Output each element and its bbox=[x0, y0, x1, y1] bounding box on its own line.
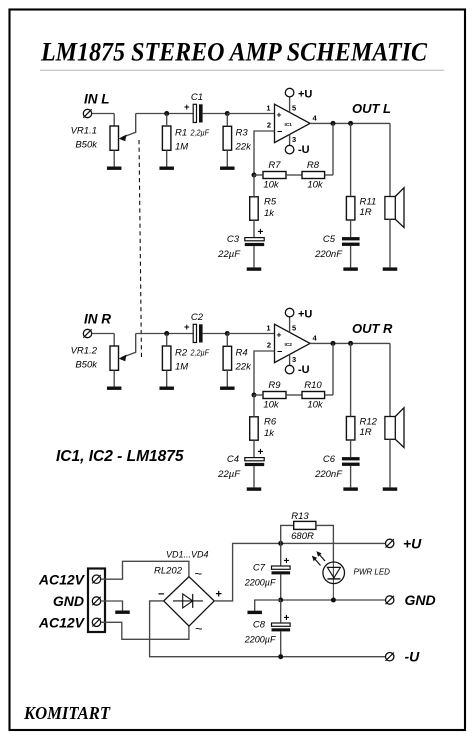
label C6 bbox=[323, 454, 336, 465]
wire midpoint to ground bbox=[255, 600, 281, 611]
label R13 bbox=[291, 511, 309, 522]
label 1M bbox=[175, 142, 188, 153]
output terminal -U bbox=[386, 653, 394, 661]
output terminal +U bbox=[386, 539, 394, 547]
svg-text:+: + bbox=[184, 102, 190, 113]
wire bridge + to +U rail bbox=[214, 543, 281, 601]
label 1M bbox=[175, 362, 188, 373]
pin 1 bbox=[266, 103, 270, 112]
capacitor C3 22uF bbox=[245, 227, 264, 267]
ground bbox=[107, 387, 122, 390]
label VR1.1 bbox=[71, 126, 97, 137]
node bbox=[252, 173, 257, 178]
capacitor C2 2,2&#181;F bbox=[184, 322, 227, 342]
label GND bbox=[405, 592, 436, 608]
svg-text:+: + bbox=[258, 447, 264, 458]
pin 2 bbox=[267, 340, 271, 349]
node bbox=[331, 598, 336, 603]
wire bbox=[136, 333, 194, 335]
label 1k bbox=[264, 428, 275, 439]
pin 1 bbox=[266, 323, 270, 332]
svg-text:+U: +U bbox=[298, 308, 312, 320]
wire bbox=[136, 113, 194, 115]
resistor R9 bbox=[254, 392, 302, 399]
label C1 bbox=[191, 92, 203, 103]
svg-text:KOMITART: KOMITART bbox=[23, 703, 111, 723]
capacitor C8 2200uF bbox=[272, 600, 291, 657]
capacitor C5 220nF bbox=[342, 237, 360, 267]
svg-text:+U: +U bbox=[403, 535, 422, 551]
ground bbox=[220, 167, 235, 170]
svg-text:2,2µF: 2,2µF bbox=[190, 348, 210, 358]
resistor R13 680R bbox=[281, 521, 334, 562]
label C2 bbox=[191, 312, 204, 323]
label 10k bbox=[307, 180, 324, 191]
ground bbox=[247, 267, 262, 270]
speaker right speaker bbox=[385, 408, 404, 488]
svg-text:B50k: B50k bbox=[75, 360, 98, 371]
svg-text:GND: GND bbox=[405, 592, 436, 608]
label C5 bbox=[323, 234, 336, 245]
svg-text:C6: C6 bbox=[323, 454, 336, 465]
label + bbox=[216, 588, 222, 600]
node bbox=[252, 393, 257, 398]
svg-text:10k: 10k bbox=[263, 400, 280, 411]
svg-text:+: + bbox=[284, 613, 290, 624]
bridge rectifier RL202 VD1...VD4 bbox=[164, 577, 215, 626]
wire bbox=[310, 122, 390, 124]
svg-text:C4: C4 bbox=[227, 454, 239, 465]
svg-text:+: + bbox=[277, 329, 282, 339]
svg-text:PWR LED: PWR LED bbox=[354, 568, 391, 577]
label R8 bbox=[307, 160, 320, 171]
svg-text:R13: R13 bbox=[291, 511, 309, 522]
ground bbox=[107, 167, 122, 170]
wire bbox=[92, 114, 115, 127]
label 1k bbox=[264, 208, 275, 219]
svg-text:2200µF: 2200µF bbox=[244, 635, 276, 645]
label RL202 bbox=[154, 566, 183, 577]
potentiometer VR1.2 B50k bbox=[110, 334, 136, 387]
wire GND terminal to ground bbox=[101, 601, 123, 611]
resistor R3 bbox=[223, 114, 232, 167]
svg-text:+U: +U bbox=[298, 88, 312, 100]
svg-text:C7: C7 bbox=[253, 563, 266, 574]
resistor R12 bbox=[346, 343, 355, 457]
label VD1...VD4 bbox=[166, 549, 209, 559]
label AC12V bbox=[38, 614, 86, 630]
resistor R1 bbox=[162, 114, 171, 167]
label PWR LED bbox=[354, 568, 391, 577]
svg-text:IN R: IN R bbox=[84, 311, 111, 326]
negative supply terminal -U bbox=[285, 145, 294, 154]
svg-text:RL202: RL202 bbox=[154, 566, 183, 577]
node bbox=[331, 121, 336, 126]
svg-text:1: 1 bbox=[266, 103, 270, 112]
svg-text:+: + bbox=[216, 588, 222, 600]
svg-text:R9: R9 bbox=[268, 380, 281, 391]
label C4 bbox=[227, 454, 239, 465]
svg-text:+: + bbox=[184, 322, 190, 333]
input terminal IN L bbox=[83, 109, 91, 117]
input terminal IN R bbox=[83, 329, 91, 337]
svg-text:220nF: 220nF bbox=[314, 469, 343, 480]
label R2 bbox=[175, 348, 188, 359]
svg-text:R4: R4 bbox=[236, 348, 248, 359]
node bbox=[278, 654, 283, 659]
label 22uF bbox=[217, 249, 241, 260]
negative supply terminal -U bbox=[285, 365, 294, 374]
label 10k bbox=[263, 180, 280, 191]
label GND bbox=[53, 593, 84, 609]
resistor R7 bbox=[254, 172, 302, 179]
svg-text:-U: -U bbox=[298, 144, 310, 156]
label 1R bbox=[360, 207, 372, 218]
svg-text:VR1.2: VR1.2 bbox=[71, 346, 98, 357]
node bbox=[164, 111, 169, 116]
wire bbox=[227, 113, 274, 115]
pin 4 bbox=[313, 113, 318, 122]
node bbox=[348, 341, 353, 346]
svg-text:OUT L: OUT L bbox=[352, 101, 391, 116]
label VR1.2 bbox=[71, 346, 98, 357]
label ~ bottom bbox=[195, 621, 203, 636]
op-amp IC2 bbox=[275, 324, 311, 362]
svg-text:R2: R2 bbox=[175, 348, 188, 359]
resistor R4 bbox=[223, 334, 232, 387]
svg-text:GND: GND bbox=[53, 593, 84, 609]
svg-text:VR1.1: VR1.1 bbox=[71, 126, 97, 137]
svg-text:3: 3 bbox=[292, 355, 296, 364]
wire +U rail bbox=[281, 542, 386, 544]
node bbox=[164, 331, 169, 336]
node bbox=[278, 598, 283, 603]
wire -U rail bbox=[150, 601, 386, 657]
label 10k bbox=[263, 400, 280, 411]
svg-text:+: + bbox=[277, 109, 282, 119]
wire bbox=[310, 342, 390, 344]
label +U bbox=[298, 88, 312, 100]
wire bbox=[332, 343, 334, 395]
ground bbox=[343, 267, 358, 270]
svg-text:C1: C1 bbox=[191, 92, 203, 103]
capacitor C1 2,2&#181;F bbox=[184, 102, 227, 122]
svg-text:10k: 10k bbox=[263, 180, 280, 191]
svg-text:1k: 1k bbox=[264, 208, 275, 219]
output terminal GND bbox=[386, 596, 394, 604]
title underline bbox=[40, 69, 444, 71]
wire bbox=[254, 351, 275, 395]
svg-text:OUT R: OUT R bbox=[352, 321, 393, 336]
label C3 bbox=[227, 234, 240, 245]
svg-text:IC1, IC2 - LM1875: IC1, IC2 - LM1875 bbox=[56, 448, 184, 465]
label +U bbox=[403, 535, 422, 551]
svg-text:AC12V: AC12V bbox=[38, 614, 86, 630]
svg-text:1M: 1M bbox=[175, 362, 188, 373]
ground bbox=[383, 267, 398, 270]
capacitor C6 220nF bbox=[342, 457, 360, 487]
wire bbox=[92, 334, 115, 347]
svg-text:2200µF: 2200µF bbox=[244, 578, 276, 588]
label 1R bbox=[360, 427, 372, 438]
potentiometer VR1.1 B50k bbox=[110, 114, 136, 167]
svg-text:R6: R6 bbox=[264, 417, 277, 428]
svg-text:680R: 680R bbox=[291, 531, 314, 542]
label 680R bbox=[291, 531, 314, 542]
positive supply terminal +U bbox=[285, 88, 294, 97]
resistor R6 bbox=[250, 395, 259, 458]
svg-text:2: 2 bbox=[267, 340, 271, 349]
node bbox=[348, 121, 353, 126]
svg-text:R7: R7 bbox=[268, 160, 281, 171]
wire AC top bbox=[101, 561, 189, 579]
svg-text:-U: -U bbox=[405, 649, 421, 665]
svg-text:IN L: IN L bbox=[84, 91, 110, 106]
LED PWR LED bbox=[312, 551, 345, 600]
wire bbox=[227, 333, 274, 335]
svg-text:22µF: 22µF bbox=[217, 469, 241, 480]
label R10 bbox=[304, 380, 322, 391]
label OUT L bbox=[352, 101, 391, 116]
label R6 bbox=[264, 417, 277, 428]
svg-text:1: 1 bbox=[266, 323, 270, 332]
svg-text:22k: 22k bbox=[235, 362, 253, 373]
svg-text:1M: 1M bbox=[175, 142, 188, 153]
pin 5 bbox=[290, 317, 297, 333]
svg-text:~: ~ bbox=[195, 621, 203, 636]
ground bbox=[247, 487, 262, 490]
svg-text:IC1: IC1 bbox=[285, 122, 293, 128]
svg-text:C2: C2 bbox=[191, 312, 204, 323]
label 2200uF bbox=[244, 578, 276, 588]
label OUT R bbox=[352, 321, 393, 336]
positive supply terminal +U bbox=[285, 308, 294, 317]
svg-text:AC12V: AC12V bbox=[38, 571, 86, 587]
wire GND rail bbox=[281, 599, 386, 601]
label 22uF bbox=[217, 469, 241, 480]
svg-text:1R: 1R bbox=[360, 207, 372, 218]
svg-text:3: 3 bbox=[292, 135, 296, 144]
svg-text:R1: R1 bbox=[175, 128, 187, 139]
pin 3 bbox=[290, 134, 297, 145]
label 220nF bbox=[314, 249, 343, 260]
ganged pot dashed link bbox=[139, 140, 142, 359]
label R4 bbox=[236, 348, 248, 359]
node bbox=[225, 111, 230, 116]
svg-text:R5: R5 bbox=[264, 197, 277, 208]
ground bbox=[159, 167, 174, 170]
svg-text:VD1...VD4: VD1...VD4 bbox=[166, 549, 209, 559]
label -U bbox=[298, 144, 310, 156]
pin 5 bbox=[290, 97, 297, 113]
svg-text:C3: C3 bbox=[227, 234, 240, 245]
svg-text:~: ~ bbox=[195, 566, 203, 581]
ground bbox=[115, 611, 130, 614]
speaker left speaker bbox=[385, 188, 404, 268]
svg-text:−: − bbox=[277, 346, 282, 356]
label 22k bbox=[235, 362, 253, 373]
label IN R bbox=[84, 311, 111, 326]
svg-text:C5: C5 bbox=[323, 234, 336, 245]
capacitor C4 22uF bbox=[245, 447, 264, 487]
resistor R11 bbox=[346, 123, 355, 237]
svg-text:-U: -U bbox=[298, 364, 310, 376]
svg-text:+: + bbox=[284, 556, 290, 567]
label IN L bbox=[84, 91, 110, 106]
svg-text:2,2µF: 2,2µF bbox=[190, 128, 210, 138]
label R9 bbox=[268, 380, 281, 391]
pin 4 bbox=[313, 333, 318, 342]
wire bbox=[332, 123, 334, 175]
label KOMITART bbox=[23, 703, 111, 723]
op-amp IC1 bbox=[275, 104, 311, 142]
svg-text:10k: 10k bbox=[307, 400, 324, 411]
resistor R2 bbox=[162, 334, 171, 387]
label B50k bbox=[75, 360, 98, 371]
label R3 bbox=[236, 128, 249, 139]
label C8 bbox=[253, 620, 266, 631]
label 220nF bbox=[314, 469, 343, 480]
label 22k bbox=[235, 142, 253, 153]
svg-text:22k: 22k bbox=[235, 142, 253, 153]
wire bbox=[389, 123, 391, 196]
svg-text:220nF: 220nF bbox=[314, 249, 343, 260]
label C7 bbox=[253, 563, 266, 574]
capacitor C7 2200uF bbox=[272, 543, 291, 600]
svg-text:1k: 1k bbox=[264, 428, 275, 439]
label 2200uF bbox=[244, 635, 276, 645]
terminal block bbox=[88, 569, 105, 633]
wire bbox=[389, 343, 391, 416]
label AC12V bbox=[38, 571, 86, 587]
pin 3 bbox=[290, 354, 297, 365]
label -U bbox=[405, 649, 421, 665]
svg-text:C8: C8 bbox=[253, 620, 266, 631]
node bbox=[331, 341, 336, 346]
svg-text:LM1875 STEREO AMP SCHEMATIC: LM1875 STEREO AMP SCHEMATIC bbox=[40, 38, 428, 67]
svg-text:−: − bbox=[277, 126, 282, 136]
label ~ top bbox=[195, 566, 203, 581]
svg-text:IC2: IC2 bbox=[285, 342, 293, 348]
ground bbox=[383, 487, 398, 490]
ground bbox=[247, 611, 262, 614]
label R11 bbox=[360, 197, 377, 208]
label +U bbox=[298, 308, 312, 320]
svg-text:1R: 1R bbox=[360, 427, 372, 438]
resistor R10 bbox=[302, 392, 333, 399]
label 10k bbox=[307, 400, 324, 411]
svg-text:R10: R10 bbox=[304, 380, 322, 391]
node bbox=[278, 541, 283, 546]
ground bbox=[220, 387, 235, 390]
label -U bbox=[298, 364, 310, 376]
wire bbox=[254, 131, 275, 175]
label R1 bbox=[175, 128, 187, 139]
pin 2 bbox=[267, 120, 271, 129]
node bbox=[225, 331, 230, 336]
wire AC bottom bbox=[101, 622, 189, 639]
resistor R8 bbox=[302, 172, 333, 179]
ground bbox=[343, 487, 358, 490]
label R5 bbox=[264, 197, 277, 208]
svg-text:5: 5 bbox=[292, 323, 296, 332]
resistor R5 bbox=[250, 175, 259, 238]
svg-text:5: 5 bbox=[292, 103, 296, 112]
svg-text:+: + bbox=[258, 227, 264, 238]
svg-text:10k: 10k bbox=[307, 180, 324, 191]
svg-text:−: − bbox=[158, 588, 164, 600]
svg-text:B50k: B50k bbox=[75, 140, 98, 151]
label B50k bbox=[75, 140, 98, 151]
svg-text:2: 2 bbox=[267, 120, 271, 129]
label R12 bbox=[360, 417, 378, 428]
svg-text:R3: R3 bbox=[236, 128, 249, 139]
svg-text:22µF: 22µF bbox=[217, 249, 241, 260]
label 2,2&#181;F bbox=[190, 128, 210, 138]
label - bbox=[158, 588, 164, 600]
label 2,2&#181;F bbox=[190, 348, 210, 358]
label R7 bbox=[268, 160, 281, 171]
svg-text:R8: R8 bbox=[307, 160, 320, 171]
ground bbox=[159, 387, 174, 390]
